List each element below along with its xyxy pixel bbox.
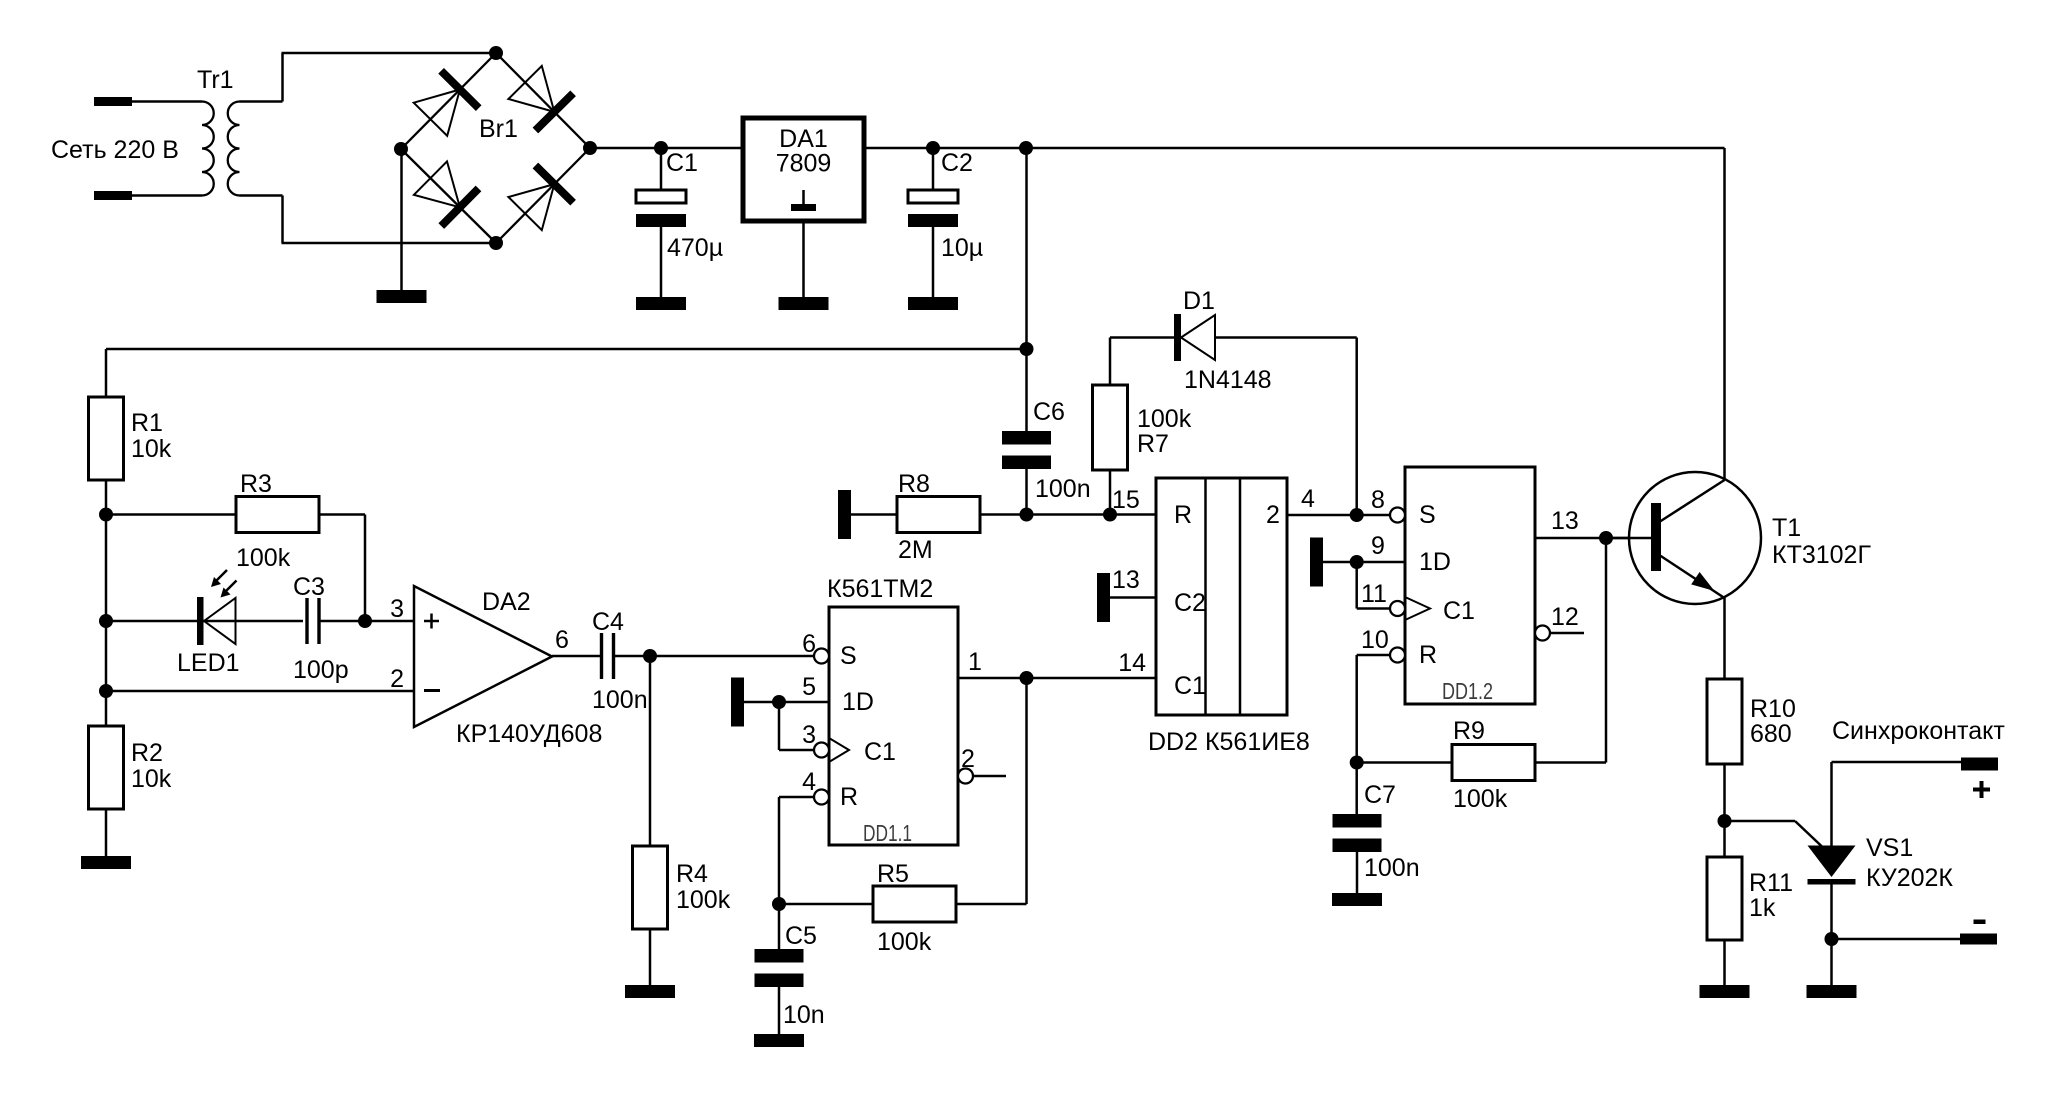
wire pin15 [1110, 513, 1156, 516]
svg-text:КР140УД608: КР140УД608 [456, 720, 602, 748]
resistor R11 [1707, 857, 1742, 940]
wire mains top [132, 100, 202, 103]
wire R3 to corner [319, 513, 365, 516]
wire secondary top c [282, 52, 497, 55]
wire R2 to ground [105, 809, 108, 856]
resistor R1 [89, 397, 124, 480]
bridge edge BR [496, 148, 590, 243]
node R3 tap [99, 508, 113, 522]
DA1 ground tab [802, 190, 805, 204]
wire to minus input [106, 690, 414, 693]
svg-text:100k: 100k [1453, 785, 1508, 813]
svg-text:Сеть 220 В: Сеть 220 В [51, 136, 179, 164]
wire DA2 output [552, 655, 602, 658]
node R5/C5 [772, 897, 786, 911]
wire to C1 bubble [779, 749, 814, 752]
svg-text:3: 3 [390, 595, 404, 623]
svg-text:C5: C5 [785, 922, 817, 950]
svg-text:R: R [1419, 641, 1437, 669]
svg-text:КТ3102Г: КТ3102Г [1772, 541, 1871, 569]
diode D1 triangle [1181, 315, 1215, 360]
ground R4 [625, 985, 675, 998]
wire D1 to corner [1215, 336, 1357, 339]
wire DA1 to ground [802, 221, 805, 297]
svg-text:100k: 100k [877, 928, 932, 956]
wire R7 corner to D1 [1110, 336, 1174, 339]
wire bridge left to ground [400, 149, 403, 290]
svg-text:10k: 10k [131, 435, 172, 463]
resistor R3 [236, 497, 319, 533]
bridge Br1 diode top-left [414, 90, 460, 136]
node pin9 [1350, 555, 1364, 569]
svg-text:1: 1 [968, 648, 982, 676]
bridge Br1 diode top-right [508, 66, 554, 112]
wire rail to collector [1026, 147, 1725, 150]
svg-text:100k: 100k [236, 544, 291, 572]
capacitor C3 [307, 598, 319, 644]
svg-text:LED1: LED1 [177, 649, 240, 677]
svg-text:R: R [840, 783, 858, 811]
svg-text:7809: 7809 [776, 150, 832, 178]
capacitor C7 [1333, 814, 1382, 828]
svg-text:1D: 1D [842, 688, 874, 716]
svg-text:10k: 10k [131, 765, 172, 793]
wire LED row [106, 620, 303, 623]
wire secondary top a [240, 100, 283, 103]
DD1.1 C1 bubble [814, 743, 829, 758]
T1 base bar [1651, 503, 1661, 571]
node rail branch [1019, 141, 1033, 155]
diode D1 cathode bar [1174, 314, 1181, 361]
LED1 triangle [204, 598, 236, 644]
node pin13 [1599, 531, 1613, 545]
svg-text:S: S [840, 642, 857, 670]
resistor R10 [1707, 679, 1742, 764]
DD1.1 pin5 power stub [731, 678, 744, 727]
svg-text:13: 13 [1112, 566, 1140, 594]
ground R11 [1700, 985, 1750, 998]
node R7 bottom [1103, 508, 1117, 522]
DD1.2 clock wedge [1405, 597, 1430, 620]
DD2 pin13 power stub [1097, 573, 1110, 622]
svg-text:C1: C1 [864, 738, 896, 766]
node opamp plus input [358, 614, 372, 628]
wire pin9 down [1355, 562, 1358, 609]
bridge Br1 diode bottom-left [414, 161, 460, 207]
svg-text:11: 11 [1361, 580, 1387, 608]
node inv tap [99, 684, 113, 698]
wire node to C6 [1025, 349, 1028, 431]
svg-text:R3: R3 [240, 470, 272, 498]
LED1 light arrow 2 [226, 581, 237, 592]
svg-text:R1: R1 [131, 409, 163, 437]
svg-text:C6: C6 [1033, 398, 1065, 426]
DA2 minus sign [424, 689, 440, 692]
wire to minus terminal [1832, 938, 1962, 941]
transformer Tr1 [202, 102, 240, 196]
wire secondary top b [281, 53, 284, 102]
wire collector drop [1723, 148, 1726, 479]
node bridge bottom [489, 236, 503, 250]
node left-feed junction [1020, 342, 1034, 356]
wire R9 left [1357, 761, 1452, 764]
svg-text:S: S [1419, 501, 1436, 529]
svg-text:DD2 К561ИЕ8: DD2 К561ИЕ8 [1148, 728, 1310, 756]
wire C1 bottom [660, 227, 663, 297]
wire node down to R4 [649, 656, 652, 846]
wire 1D row [744, 701, 829, 704]
svg-text:3: 3 [802, 721, 816, 749]
svg-text:К561ТМ2: К561ТМ2 [827, 575, 933, 603]
node cathode [1825, 932, 1839, 946]
R8 power stub [838, 490, 851, 539]
wire C5 top [778, 904, 781, 949]
svg-text:R10: R10 [1750, 695, 1796, 723]
node C1 top [654, 141, 668, 155]
svg-text:680: 680 [1750, 720, 1792, 748]
transistor T1 circle [1629, 472, 1761, 604]
svg-text:R: R [1174, 501, 1192, 529]
terminal sync plus [1961, 758, 1998, 771]
resistor R5 [873, 886, 956, 922]
wire C2 top [932, 148, 935, 190]
DD2 divider line 1 [1204, 478, 1207, 715]
svg-text:100k: 100k [676, 886, 731, 914]
LED1 light arrow 1 [216, 570, 227, 581]
wire secondary bottom b [281, 196, 284, 244]
node C7 [1350, 756, 1364, 770]
svg-text:T1: T1 [1772, 514, 1801, 542]
wire C4 to node [614, 655, 651, 658]
sync minus sign [1974, 920, 1986, 925]
svg-text:8: 8 [1371, 486, 1385, 514]
wire R bubble left [779, 796, 814, 799]
wire C6 bottom [1025, 469, 1028, 515]
wire secondary bottom a [240, 194, 283, 197]
capacitor C4 [602, 633, 614, 679]
wire C2 bottom [932, 227, 935, 297]
wire pin4 out [1287, 514, 1357, 517]
node 1D junction [772, 695, 786, 709]
svg-text:C1: C1 [1174, 672, 1206, 700]
capacitor C2 [908, 190, 958, 203]
svg-text:C2: C2 [941, 149, 973, 177]
wire C7 bottom [1356, 852, 1359, 893]
wire R5 left [779, 903, 873, 906]
capacitor C5 [755, 949, 804, 963]
resistor R7 [1093, 385, 1128, 470]
wire C5 bottom [778, 987, 781, 1034]
wire R4 to ground [649, 929, 652, 985]
DD2 divider line 2 [1239, 478, 1242, 715]
wire R3 corner down [364, 515, 367, 622]
wire pin2 stub [973, 775, 1006, 778]
svg-text:100n: 100n [1364, 854, 1420, 882]
svg-text:100n: 100n [592, 686, 648, 714]
wire pin1 out [958, 677, 1156, 680]
svg-text:2M: 2M [898, 536, 933, 564]
ground VS1 [1807, 985, 1857, 998]
ground C7 [1332, 893, 1382, 906]
svg-text:C1: C1 [666, 149, 698, 177]
wire R11 to ground [1723, 940, 1726, 985]
resistor R9 [1452, 745, 1535, 781]
wire to C1 bubble DD1.2 [1357, 607, 1390, 610]
svg-text:4: 4 [1301, 485, 1315, 513]
T1 collector line [1660, 480, 1725, 522]
wire cathode down [1830, 884, 1833, 985]
svg-text:R7: R7 [1137, 430, 1169, 458]
wire R down [778, 797, 781, 904]
DD1.2 S bubble [1390, 508, 1405, 523]
terminal sync minus [1960, 934, 1997, 945]
wire anode rail [1832, 761, 1962, 764]
ground C2 [908, 297, 958, 310]
wire R bubble left DD1.2 [1357, 654, 1390, 657]
node pin8 [1350, 508, 1364, 522]
wire R9 right [1535, 761, 1606, 764]
LED1 cathode bar [197, 597, 204, 645]
svg-text:6: 6 [802, 630, 816, 658]
svg-text:R9: R9 [1453, 717, 1485, 745]
node pin1 [1020, 671, 1034, 685]
terminal mains bottom [94, 191, 132, 200]
svg-text:10: 10 [1361, 626, 1389, 654]
node C2 top [926, 141, 940, 155]
IC DD1.1 box [829, 607, 958, 845]
capacitor C1 [636, 190, 686, 203]
svg-text:5: 5 [802, 673, 816, 701]
wire node13 down [1605, 538, 1608, 763]
wire 1D down [778, 702, 781, 750]
DD1.1 S bubble [814, 649, 829, 664]
wire node8 to S bubble [1357, 514, 1390, 517]
svg-text:1D: 1D [1419, 548, 1451, 576]
node LED tap [99, 614, 113, 628]
svg-text:15: 15 [1112, 486, 1140, 514]
wire R5 riser [1025, 678, 1028, 904]
wire C1 top [660, 148, 663, 190]
wire stub to R8 [851, 513, 897, 516]
svg-text:14: 14 [1118, 649, 1146, 677]
wire node to DD1.1 S [650, 655, 814, 658]
svg-text:DD1.2: DD1.2 [1442, 678, 1493, 704]
svg-text:2: 2 [1266, 501, 1280, 529]
svg-text:Tr1: Tr1 [197, 66, 234, 94]
op-amp DA2 [414, 586, 552, 727]
wire pin12 stub [1550, 632, 1584, 635]
wire R5 right [956, 903, 1027, 906]
svg-text:DD1.1: DD1.1 [863, 820, 912, 846]
DA2 plus sign [424, 614, 439, 629]
svg-text:10n: 10n [783, 1001, 825, 1029]
svg-text:1k: 1k [1749, 894, 1776, 922]
DD1.1 pin2 bubble [958, 769, 973, 784]
wire R7 top [1109, 338, 1112, 386]
resistor R8 [897, 497, 980, 533]
svg-text:R5: R5 [877, 860, 909, 888]
DD1.1 R bubble [814, 790, 829, 805]
node gate [1718, 814, 1732, 828]
ground R2 [81, 856, 131, 869]
svg-text:4: 4 [802, 768, 816, 796]
ground C1 [636, 297, 686, 310]
wire rail DA1 to C2 [864, 147, 1026, 150]
svg-text:КУ202К: КУ202К [1866, 864, 1953, 892]
ground DA1 [779, 297, 829, 310]
ground bridge [377, 290, 427, 303]
wire node to R3 [106, 513, 236, 516]
svg-text:C4: C4 [592, 608, 624, 636]
wire to plus input [365, 620, 414, 623]
wire emitter down [1723, 598, 1726, 680]
DD1.1 clock wedge [829, 738, 849, 762]
wire mains bottom [132, 194, 202, 197]
svg-text:R4: R4 [676, 860, 708, 888]
sync plus sign [1973, 781, 1990, 798]
wire secondary bottom c [282, 242, 497, 245]
IC DD1.2 box [1405, 467, 1535, 704]
svg-text:1N4148: 1N4148 [1184, 366, 1272, 394]
wire gate diagonal [1795, 821, 1823, 848]
thyristor VS1 triangle [1808, 846, 1856, 878]
svg-text:100n: 100n [1035, 475, 1091, 503]
wire anode top [1830, 762, 1833, 846]
svg-text:10µ: 10µ [941, 234, 983, 262]
wire rail down to node [1025, 148, 1028, 349]
resistor R4 [633, 846, 668, 929]
svg-text:12: 12 [1551, 603, 1579, 631]
wire 1D row DD1.2 [1323, 561, 1405, 564]
terminal mains top [94, 97, 132, 106]
bridge edge BL [401, 149, 496, 243]
svg-text:C7: C7 [1364, 781, 1396, 809]
svg-text:2: 2 [390, 665, 404, 693]
resistor R2 [89, 726, 124, 809]
svg-text:470µ: 470µ [667, 234, 723, 262]
svg-text:R11: R11 [1749, 869, 1793, 897]
ground C5 [754, 1034, 804, 1047]
node bridge top [489, 46, 503, 60]
svg-text:VS1: VS1 [1866, 834, 1913, 862]
wire C3 to node [319, 620, 365, 623]
DD1.2 R bubble [1390, 648, 1405, 663]
regulator DA1 box [743, 118, 864, 221]
IC DD2 box [1156, 478, 1287, 715]
svg-text:R8: R8 [898, 470, 930, 498]
T1 emitter line [1660, 556, 1725, 599]
thyristor VS1 cathode bar [1808, 879, 1856, 885]
node C4 out [643, 649, 657, 663]
wire gate horizontal [1725, 820, 1796, 823]
DD1.2 pin9 power stub [1310, 538, 1323, 587]
svg-text:2: 2 [961, 745, 975, 773]
wire rail bridge to DA1 [590, 147, 743, 150]
bridge edge TL [401, 53, 496, 149]
svg-text:100k: 100k [1137, 405, 1192, 433]
svg-text:C3: C3 [293, 573, 325, 601]
svg-text:Br1: Br1 [479, 115, 518, 143]
svg-text:C2: C2 [1174, 589, 1206, 617]
wire left feed [106, 348, 1027, 351]
wire pin13 out [1535, 537, 1651, 540]
DD1.2 C1 bubble [1390, 601, 1405, 616]
svg-text:C1: C1 [1443, 597, 1475, 625]
svg-text:13: 13 [1551, 507, 1579, 535]
capacitor C6 [1002, 431, 1051, 445]
wire pin13 DD2 [1110, 596, 1156, 599]
wire D1 drop to node8 [1355, 338, 1358, 516]
svg-text:Синхроконтакт: Синхроконтакт [1832, 717, 2005, 745]
wire R10 to node [1723, 764, 1726, 857]
node C6 bottom [1020, 508, 1034, 522]
svg-text:6: 6 [555, 626, 569, 654]
svg-text:R2: R2 [131, 739, 163, 767]
wire C7 top [1355, 763, 1358, 815]
T1 emitter arrow [1691, 572, 1714, 591]
wire R1 to R2 [105, 480, 108, 726]
node bridge right [583, 141, 597, 155]
bridge edge TR [496, 53, 590, 148]
svg-text:DA2: DA2 [482, 588, 531, 616]
svg-text:D1: D1 [1183, 287, 1215, 315]
wire left rail down [105, 349, 108, 397]
wire R7 bottom [1109, 470, 1112, 515]
bridge Br1 diode bottom-right [508, 184, 554, 230]
wire pin10 down [1355, 655, 1358, 763]
wire R8 to C6 node [980, 513, 1110, 516]
node bridge left [394, 142, 408, 156]
svg-text:9: 9 [1371, 532, 1385, 560]
svg-text:100p: 100p [293, 656, 349, 684]
DD1.2 pin12 bubble [1535, 626, 1550, 641]
wire base [1606, 537, 1651, 540]
